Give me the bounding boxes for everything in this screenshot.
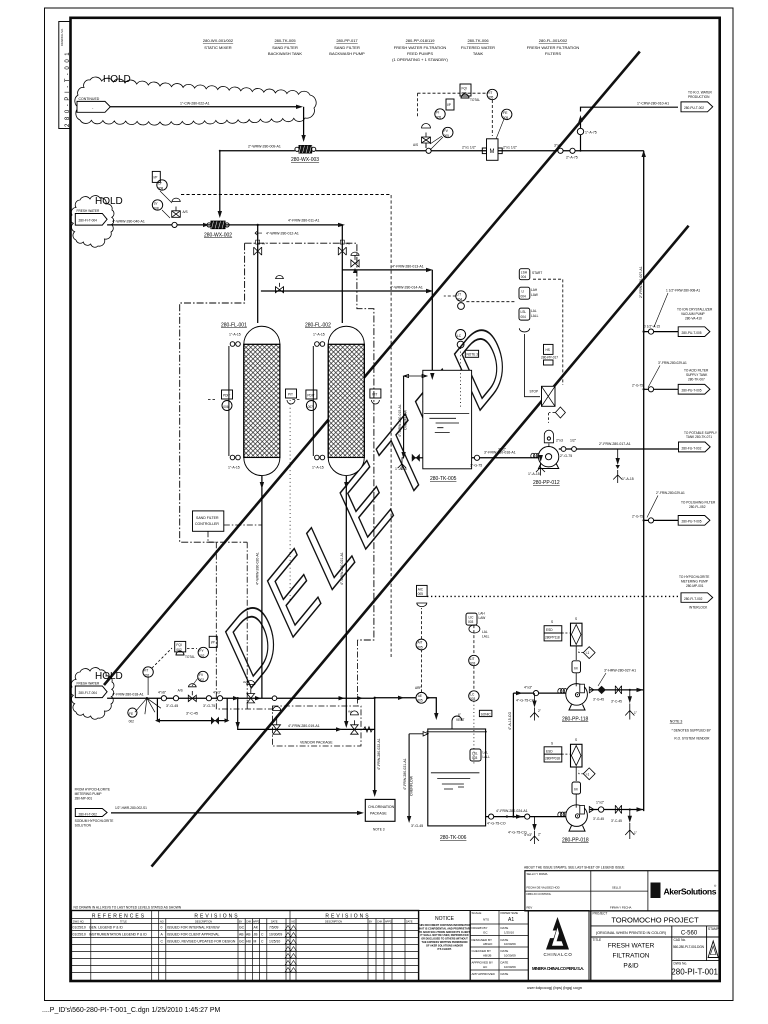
svg-text:LSL: LSL <box>521 310 527 314</box>
node junction circle L2 <box>172 222 177 227</box>
svg-text:DIBUJO CONTROL: DIBUJO CONTROL <box>527 892 552 896</box>
svg-text:C-560: C-560 <box>681 931 698 937</box>
svg-text:280-TK-005: 280-TK-005 <box>274 38 296 43</box>
svg-text:280-PP-017: 280-PP-017 <box>541 356 558 360</box>
svg-text:AV: AV <box>243 680 247 684</box>
svg-text:3"-C-45: 3"-C-45 <box>186 712 198 716</box>
drain on PP-018 suction <box>530 817 541 844</box>
svg-text:I/P: I/P <box>211 640 215 644</box>
svg-text:NOTICE: NOTICE <box>435 916 455 922</box>
wire L5 junction to chlorination <box>357 696 381 797</box>
interlock square with X <box>542 386 556 406</box>
svg-text:4"-WRW-280-040-A1: 4"-WRW-280-040-A1 <box>112 219 145 223</box>
svg-text:NO: NO <box>292 920 296 923</box>
strike line 2 <box>104 52 640 686</box>
svg-text:FE: FE <box>503 111 508 115</box>
svg-text:CHLORINATION: CHLORINATION <box>368 805 395 809</box>
svg-text:FRESH WATER: FRESH WATER <box>608 943 655 950</box>
off-page flag TO POTABLE SUPPLY TANK <box>679 431 718 452</box>
instrument LIT-004 <box>444 291 516 310</box>
svg-text:AIC: AIC <box>418 588 424 592</box>
svg-text:DWG NO.: DWG NO. <box>73 920 85 923</box>
svg-text:TOTAL: TOTAL <box>470 98 480 102</box>
svg-text:2": 2" <box>538 833 541 837</box>
valves on L5 right of CV <box>206 696 211 701</box>
ESD boxes PP-118 <box>544 620 569 641</box>
suction header vertical <box>508 693 515 818</box>
svg-text:AV: AV <box>348 710 352 714</box>
PP-118 suction line <box>513 686 569 703</box>
svg-text:003: 003 <box>470 697 476 701</box>
svg-text:2"-WRW-280-009-A1: 2"-WRW-280-009-A1 <box>248 145 281 149</box>
svg-text:S: S <box>551 741 553 745</box>
svg-text:2"-FRW-280-00?-A1: 2"-FRW-280-00?-A1 <box>639 266 643 298</box>
svg-text:LAL: LAL <box>531 309 537 313</box>
flow arrow vessel2 into L6 <box>336 727 342 731</box>
svg-text:4"-G-75-CO: 4"-G-75-CO <box>516 699 535 703</box>
svg-text:LC: LC <box>457 334 462 338</box>
wire L2 fresh water line <box>107 224 338 226</box>
svg-text:NOTE 3: NOTE 3 <box>467 353 479 357</box>
svg-text:ISSUED FOR INTERNAL REVIEW: ISSUED FOR INTERNAL REVIEW <box>167 926 220 930</box>
svg-text:003: 003 <box>472 756 478 760</box>
flex connector on L6 <box>364 727 373 732</box>
wire vessel2 bottom outlet <box>345 476 347 726</box>
svg-text:003: 003 <box>468 620 474 624</box>
STOP chain to HS <box>525 334 559 397</box>
svg-text:INSTRUMENTATION LEGEND P & ID: INSTRUMENTATION LEGEND P & ID <box>89 933 147 937</box>
svg-text:PROJECT: PROJECT <box>593 912 608 916</box>
instrument bubble LY-008 <box>157 180 167 190</box>
dash-dot controller signals <box>208 525 272 709</box>
svg-text:CHECKED BY: CHECKED BY <box>472 949 492 953</box>
svg-text:002: 002 <box>144 673 150 677</box>
svg-text:1"-CW-280-022-A1: 1"-CW-280-022-A1 <box>180 102 210 106</box>
svg-text:10/30/09: 10/30/09 <box>269 933 282 937</box>
svg-text:280-PU-T-002: 280-PU-T-002 <box>684 106 704 110</box>
node junctions on L5 <box>237 697 239 699</box>
svg-text:PRODUCTION: PRODUCTION <box>688 95 710 99</box>
svg-text:LSL: LSL <box>472 751 478 755</box>
svg-text:ITS CLIENT.: ITS CLIENT. <box>437 948 451 951</box>
svg-text:HC: HC <box>483 965 488 969</box>
svg-text:LALL: LALL <box>531 314 539 318</box>
svg-text:005: 005 <box>488 96 494 100</box>
svg-text:NO: NO <box>160 920 164 923</box>
svg-text:MINERA CHINALCO PERU S.A.: MINERA CHINALCO PERU S.A. <box>532 966 584 971</box>
svg-text:ABOUT THE ISSUE STAMPS, SEE LA: ABOUT THE ISSUE STAMPS, SEE LAST SHEET O… <box>524 866 625 870</box>
wire L5b to tank TK-006 <box>375 696 439 720</box>
svg-text:280-TK-007: 280-TK-007 <box>688 378 705 382</box>
svg-text:C: C <box>261 933 264 937</box>
svg-text:REVISIONS: REVISIONS <box>325 914 370 920</box>
valve with actuator on L6 left <box>273 725 281 734</box>
svg-text:NO DRAWN IN ALL REVS TO LAST N: NO DRAWN IN ALL REVS TO LAST NOTED LEVEL… <box>74 906 182 910</box>
svg-text:STATIC MIXER: STATIC MIXER <box>204 45 232 50</box>
svg-text:I/P: I/P <box>154 175 158 179</box>
pump PP-012 motor bell <box>544 430 553 446</box>
tank 280-TK-006 <box>427 729 487 841</box>
dash-dot boundary near junction <box>357 640 359 706</box>
svg-text:VENT: VENT <box>456 718 465 722</box>
svg-text:008: 008 <box>158 186 164 190</box>
svg-text:280-MP-001: 280-MP-001 <box>75 797 93 801</box>
sand filter controller box <box>193 511 224 531</box>
svg-text:SOLUTION: SOLUTION <box>75 824 92 828</box>
svg-text:NOTE 3: NOTE 3 <box>373 828 385 832</box>
svg-text:1"-A-15: 1"-A-15 <box>622 477 634 481</box>
svg-text:AB/JB: AB/JB <box>483 954 491 958</box>
svg-text:HOLD: HOLD <box>95 196 123 207</box>
svg-text:FRESH WATER: FRESH WATER <box>77 682 101 686</box>
svg-text:APPD: APPD <box>253 920 260 923</box>
svg-text:008: 008 <box>153 206 159 210</box>
wire sample/drain Y below PP-012 line <box>528 449 545 476</box>
svg-text:280-PI-T-001: 280-PI-T-001 <box>65 49 71 127</box>
svg-text:AkerSolutions: AkerSolutions <box>664 887 717 897</box>
dash-dot vendor boundary upper <box>180 243 245 542</box>
wire drop L1 to WX-002 <box>219 151 221 216</box>
svg-text:OVERFLOW: OVERFLOW <box>403 409 407 430</box>
svg-text:ARP: ARP <box>415 686 422 690</box>
svg-text:LAW: LAW <box>531 293 538 297</box>
wire L1 main line <box>220 150 644 152</box>
svg-text:280-TK-006: 280-TK-006 <box>440 835 467 841</box>
svg-text:TOROMOCHO PROJECT: TOROMOCHO PROJECT <box>611 916 699 925</box>
svg-text:005: 005 <box>436 115 442 119</box>
svg-text:280-PU-T-005: 280-PU-T-005 <box>682 389 702 393</box>
svg-text:LIT: LIT <box>470 657 475 661</box>
svg-text:10/30/09: 10/30/09 <box>504 942 516 946</box>
svg-text:GC: GC <box>239 926 245 930</box>
svg-text:2": 2" <box>538 709 541 713</box>
svg-text:PDIT: PDIT <box>307 394 314 398</box>
svg-text:SCALE: SCALE <box>472 911 482 915</box>
svg-text:280-PU-T-005: 280-PU-T-005 <box>682 331 702 335</box>
black valve on vessel1 outlet <box>255 696 261 700</box>
svg-text:TOTAL: TOTAL <box>185 655 195 659</box>
level chain LIT-003 <box>466 612 492 766</box>
svg-text:DATE: DATE <box>406 920 413 923</box>
control valve FV-002 on L5 <box>178 678 198 702</box>
svg-text:0: 0 <box>161 926 163 930</box>
interlock diamond PP-018 <box>579 768 595 780</box>
svg-text:LY: LY <box>158 182 163 186</box>
valve on L3 <box>351 252 359 273</box>
svg-text:002: 002 <box>199 678 205 682</box>
static mixer 280-WX-003 <box>291 146 319 163</box>
instrument bubble FI-005 <box>435 109 445 119</box>
svg-text:LAH: LAH <box>479 612 486 616</box>
svg-text:3"-FRW-280-029-A1: 3"-FRW-280-029-A1 <box>658 361 687 365</box>
svg-text:BACKWASH TANK: BACKWASH TANK <box>268 51 302 56</box>
svg-text:1"x2": 1"x2" <box>596 801 605 805</box>
svg-text:SONIC: SONIC <box>481 712 492 716</box>
svg-text:NOTE 3: NOTE 3 <box>670 720 683 724</box>
instrument bubble FE-005 <box>502 109 512 119</box>
svg-text:FILTERS: FILTERS <box>545 51 561 56</box>
wire drop to vessel1 <box>257 225 259 323</box>
branch4 to polishing filter <box>632 491 716 525</box>
svg-text:FILTRATION: FILTRATION <box>613 953 650 960</box>
svg-text:APPROVED BY: APPROVED BY <box>472 961 494 965</box>
svg-text:LAW: LAW <box>479 616 486 620</box>
svg-text:DATE: DATE <box>501 972 509 976</box>
svg-text:CAD No.: CAD No. <box>674 938 687 942</box>
interlock dotted line to metering pump <box>427 595 680 597</box>
node L2 vessel1 drop junction <box>257 224 259 226</box>
svg-text:4"x3": 4"x3" <box>213 691 222 695</box>
svg-text:2"-G-75: 2"-G-75 <box>632 515 643 519</box>
svg-text:280-FL-052: 280-FL-052 <box>689 505 706 509</box>
svg-text:S: S <box>551 620 553 624</box>
svg-text:CONTROLLER: CONTROLLER <box>195 522 219 526</box>
svg-text:0 1/2"-A-15: 0 1/2"-A-15 <box>644 324 660 328</box>
svg-text:280-FI-T-002: 280-FI-T-002 <box>684 597 703 601</box>
svg-text:LV: LV <box>154 202 159 206</box>
svg-text:280-TK-006: 280-TK-006 <box>467 38 489 43</box>
svg-text:2"x1 1/2": 2"x1 1/2" <box>462 146 477 150</box>
node junction L1/WX-002 drop <box>219 150 221 152</box>
svg-text:2"-G-75: 2"-G-75 <box>632 384 643 388</box>
svg-text:SAND FILTER: SAND FILTER <box>334 45 360 50</box>
svg-text:TO POTABLE SUPPLY: TO POTABLE SUPPLY <box>684 431 718 435</box>
svg-text:3"-G-45: 3"-G-45 <box>166 704 178 708</box>
dashed signal line to FIT drop <box>181 194 391 196</box>
relief valve on riser <box>577 128 583 134</box>
interlock diamond PP-118 <box>579 647 595 659</box>
pump 280-PP-018 <box>562 805 589 844</box>
svg-text:DATE: DATE <box>501 926 509 930</box>
svg-text:PIT: PIT <box>372 393 377 397</box>
tank TK-006 vent <box>452 713 465 729</box>
svg-text:2"-FRW-280-029-A1: 2"-FRW-280-029-A1 <box>656 491 685 495</box>
svg-text:2"-G-75: 2"-G-75 <box>560 454 572 458</box>
off-page flag FRESH WATER source <box>75 209 107 225</box>
svg-text:AE: AE <box>418 694 422 698</box>
svg-text:005: 005 <box>444 134 450 138</box>
tank TK-005 outlet left (drain) <box>398 454 423 470</box>
tank TK-005 inlet arrow <box>430 373 434 380</box>
svg-text:280-PU-T-005: 280-PU-T-005 <box>682 520 702 524</box>
svg-text:4"-WRW-280-015-A1: 4"-WRW-280-015-A1 <box>398 404 402 437</box>
svg-text:LSH: LSH <box>521 271 528 275</box>
DELETED watermark <box>186 292 554 712</box>
svg-text:4"-FRW-280-019-A1: 4"-FRW-280-019-A1 <box>288 724 320 728</box>
svg-text:4"-A-15-CO: 4"-A-15-CO <box>508 712 512 730</box>
svg-text:LALL: LALL <box>482 635 490 639</box>
PP-018 suction line <box>508 812 569 837</box>
off-page flag to hypochlorite pump <box>679 575 713 610</box>
svg-text:2"x3: 2"x3 <box>556 439 563 443</box>
drain on PP-118 suction <box>530 693 541 720</box>
instrument bubble FV-005 <box>443 127 453 137</box>
svg-text:4"-FRW-280-018-A1: 4"-FRW-280-018-A1 <box>112 693 144 697</box>
svg-text:PDIT: PDIT <box>223 394 230 398</box>
svg-text:FIRMA Y FECHA: FIRMA Y FECHA <box>610 906 631 910</box>
analyzer AIT-005 <box>416 608 427 650</box>
svg-text:FEED PUMPS: FEED PUMPS <box>407 51 433 56</box>
svg-text:S: S <box>575 738 577 742</box>
wire drop to mixer WX-003 <box>303 107 305 140</box>
svg-text:PIT: PIT <box>288 393 293 397</box>
svg-text:* DENOTES SUPPLIED BY: * DENOTES SUPPLIED BY <box>672 729 712 733</box>
svg-text:280PP018: 280PP018 <box>545 757 560 761</box>
svg-text:4"-G-75-CO: 4"-G-75-CO <box>508 831 527 835</box>
svg-text:280-PP-018/119: 280-PP-018/119 <box>406 38 436 43</box>
svg-text:METERING PUMP: METERING PUMP <box>75 792 102 796</box>
revision cloud HOLD top <box>75 77 316 125</box>
signal dashed FIT to meter <box>491 100 493 136</box>
off-page flag FRESH WATER lower <box>75 682 107 698</box>
branch2 to acid filter <box>632 361 710 394</box>
svg-text:4"-FRW-280-022-A1: 4"-FRW-280-022-A1 <box>377 738 381 770</box>
svg-text:A1: A1 <box>508 917 514 923</box>
main drawing frame <box>71 18 720 981</box>
wire leader actuator links <box>430 136 443 150</box>
svg-text:BY: BY <box>369 920 373 923</box>
control valve FV-005 station <box>413 124 431 154</box>
pump PP-012 discharge <box>556 439 679 459</box>
svg-text:FV: FV <box>199 673 204 677</box>
svg-text:AB: AB <box>239 933 244 937</box>
filter vessel 280-FL-001 <box>221 323 280 476</box>
control valve LV station <box>172 198 188 217</box>
svg-text:FRESH WATER FILTRATION: FRESH WATER FILTRATION <box>527 45 580 50</box>
svg-text:2"x1 1/2": 2"x1 1/2" <box>503 146 518 150</box>
analyzer AE-005 <box>415 650 427 703</box>
svg-text:1"-A-75: 1"-A-75 <box>585 131 597 135</box>
svg-text:FILTERED WATER: FILTERED WATER <box>461 45 495 50</box>
svg-text:280-FI-T-002: 280-FI-T-002 <box>79 813 98 817</box>
svg-text:1/25/10: 1/25/10 <box>269 940 280 944</box>
svg-text:LAH: LAH <box>531 288 538 292</box>
svg-text:10/30/09: 10/30/09 <box>504 965 516 969</box>
svg-text:6": 6" <box>458 713 461 717</box>
svg-text:I/P: I/P <box>447 103 451 107</box>
svg-text:A: A <box>161 933 164 937</box>
svg-text:DRAWN BY: DRAWN BY <box>472 926 488 930</box>
instrument PDIT-006 <box>207 390 233 411</box>
svg-text:HB: HB <box>246 940 251 944</box>
svg-text:JB: JB <box>254 933 259 937</box>
svg-text:STAMP: STAMP <box>708 927 719 931</box>
node L4 tee <box>257 290 259 292</box>
svg-text:007: 007 <box>308 405 314 409</box>
svg-text:3"-G-45: 3"-G-45 <box>593 697 604 701</box>
svg-text:TITLE: TITLE <box>120 920 127 923</box>
svg-text:TANK: TANK <box>473 51 484 56</box>
svg-text:3"-G-45: 3"-G-45 <box>411 824 423 828</box>
svg-text:PAPER SIZE: PAPER SIZE <box>501 911 518 915</box>
revision cloud HOLD middle <box>70 196 114 248</box>
svg-text:280-FL-002: 280-FL-002 <box>305 323 331 329</box>
branch1 to ion crystallizer <box>643 289 713 337</box>
svg-text:TO POLISHING FILTER: TO POLISHING FILTER <box>681 501 716 505</box>
tank TK-005 outlet right to pump <box>472 457 538 459</box>
valve with actuator on L5 left of vessel1 tee <box>243 680 255 703</box>
AkerSolutions logo <box>651 883 718 899</box>
svg-text:4"-FRW-280-013-A1: 4"-FRW-280-013-A1 <box>392 264 424 268</box>
wire vessel1 bottom outlet <box>261 476 263 698</box>
svg-text:ISSUED FOR CLIENT APPROVAL: ISSUED FOR CLIENT APPROVAL <box>167 933 220 937</box>
strike line 1 <box>152 226 689 867</box>
chinalco triangle logo <box>546 917 569 950</box>
svg-text:user:kdpocog| (bps| (b: user:kdpocog| (bps| (bgq| ucgn <box>527 985 582 990</box>
svg-text:002: 002 <box>129 720 135 724</box>
svg-text:M: M <box>490 149 495 155</box>
svg-text:CHK: CHK <box>377 920 383 923</box>
svg-text:APPD: APPD <box>385 920 392 923</box>
svg-text:(ORIGINAL WHEN PRINTED IN COLO: (ORIGINAL WHEN PRINTED IN COLOR) <box>596 931 667 935</box>
svg-text:LC: LC <box>470 693 475 697</box>
svg-text:NTS: NTS <box>483 918 489 922</box>
static mixer 280-WX-002 <box>203 221 232 238</box>
svg-text:1"-A-15: 1"-A-15 <box>395 467 407 471</box>
svg-text:4"-WRW-280-012-A1: 4"-WRW-280-012-A1 <box>266 232 299 236</box>
svg-text:FV: FV <box>444 129 449 133</box>
off-page connector CONTINUED <box>77 97 110 113</box>
svg-text:OVERFLOW: OVERFLOW <box>409 775 413 796</box>
svg-text:4"-G-75-CO: 4"-G-75-CO <box>487 822 506 826</box>
svg-text:SAND FILTER: SAND FILTER <box>196 516 219 520</box>
svg-text:1/25/10: 1/25/10 <box>504 931 514 935</box>
svg-text:4"x3": 4"x3" <box>524 686 533 690</box>
svg-text:01/25/10: 01/25/10 <box>73 926 86 930</box>
svg-text:FROM HYPOCHLORITE: FROM HYPOCHLORITE <box>75 788 110 792</box>
svg-text:LI: LI <box>522 290 525 294</box>
svg-text:FIT: FIT <box>144 669 149 673</box>
instrument PIT-008 vessel2 <box>370 389 381 404</box>
svg-text:HS: HS <box>546 348 550 352</box>
svg-text:VACUUM PUMP: VACUUM PUMP <box>681 312 705 316</box>
tank TK-006 outlet <box>486 809 528 826</box>
svg-text:006: 006 <box>223 405 229 409</box>
revision cloud HOLD lower <box>70 668 114 720</box>
VFD square PP-018 <box>571 738 583 781</box>
dashed signal vertical x391 <box>390 195 392 657</box>
off-page flag TO R.O. WATER PRODUCTION <box>681 91 713 112</box>
svg-text:3"-G-75: 3"-G-75 <box>470 464 482 468</box>
svg-text:4"-WRW-280-021-A1: 4"-WRW-280-021-A1 <box>340 552 344 585</box>
svg-text:4"-FRW-280-024-A1: 4"-FRW-280-024-A1 <box>496 809 528 813</box>
valves on L5 <box>161 696 166 701</box>
svg-text:M: M <box>574 666 577 671</box>
pump PP-018 motor M <box>572 782 581 808</box>
svg-text:STOP: STOP <box>530 390 539 394</box>
svg-text:AK: AK <box>254 926 259 930</box>
svg-text:7/5/09: 7/5/09 <box>269 926 279 930</box>
svg-text:LALL: LALL <box>483 755 491 759</box>
wire drop to vessel2 <box>341 225 343 323</box>
filter vessel 280-FL-002 <box>305 323 364 476</box>
wire static water supply line <box>110 106 301 108</box>
svg-text:3"-C-45: 3"-C-45 <box>611 819 622 823</box>
svg-text:005: 005 <box>417 645 423 649</box>
svg-text:GC: GC <box>483 931 488 935</box>
instrument bubble LV-008 <box>152 200 162 210</box>
svg-text:004: 004 <box>521 275 527 279</box>
note text right <box>670 720 712 741</box>
instrument square I/P <box>446 99 454 110</box>
svg-text:AB: AB <box>246 933 251 937</box>
svg-text:PACKAGE: PACKAGE <box>370 812 387 816</box>
svg-text:INTERLOCK: INTERLOCK <box>689 606 708 610</box>
hypochlorite dosing texts <box>75 788 114 828</box>
valve with actuator on L6 right <box>351 725 359 734</box>
svg-text:004: 004 <box>457 297 463 301</box>
vessel1 side line <box>228 333 241 470</box>
